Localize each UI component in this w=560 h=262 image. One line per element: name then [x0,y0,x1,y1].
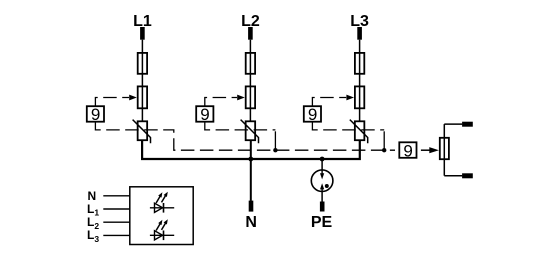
svg-text:N: N [245,214,257,231]
svg-text:PE: PE [311,214,333,231]
